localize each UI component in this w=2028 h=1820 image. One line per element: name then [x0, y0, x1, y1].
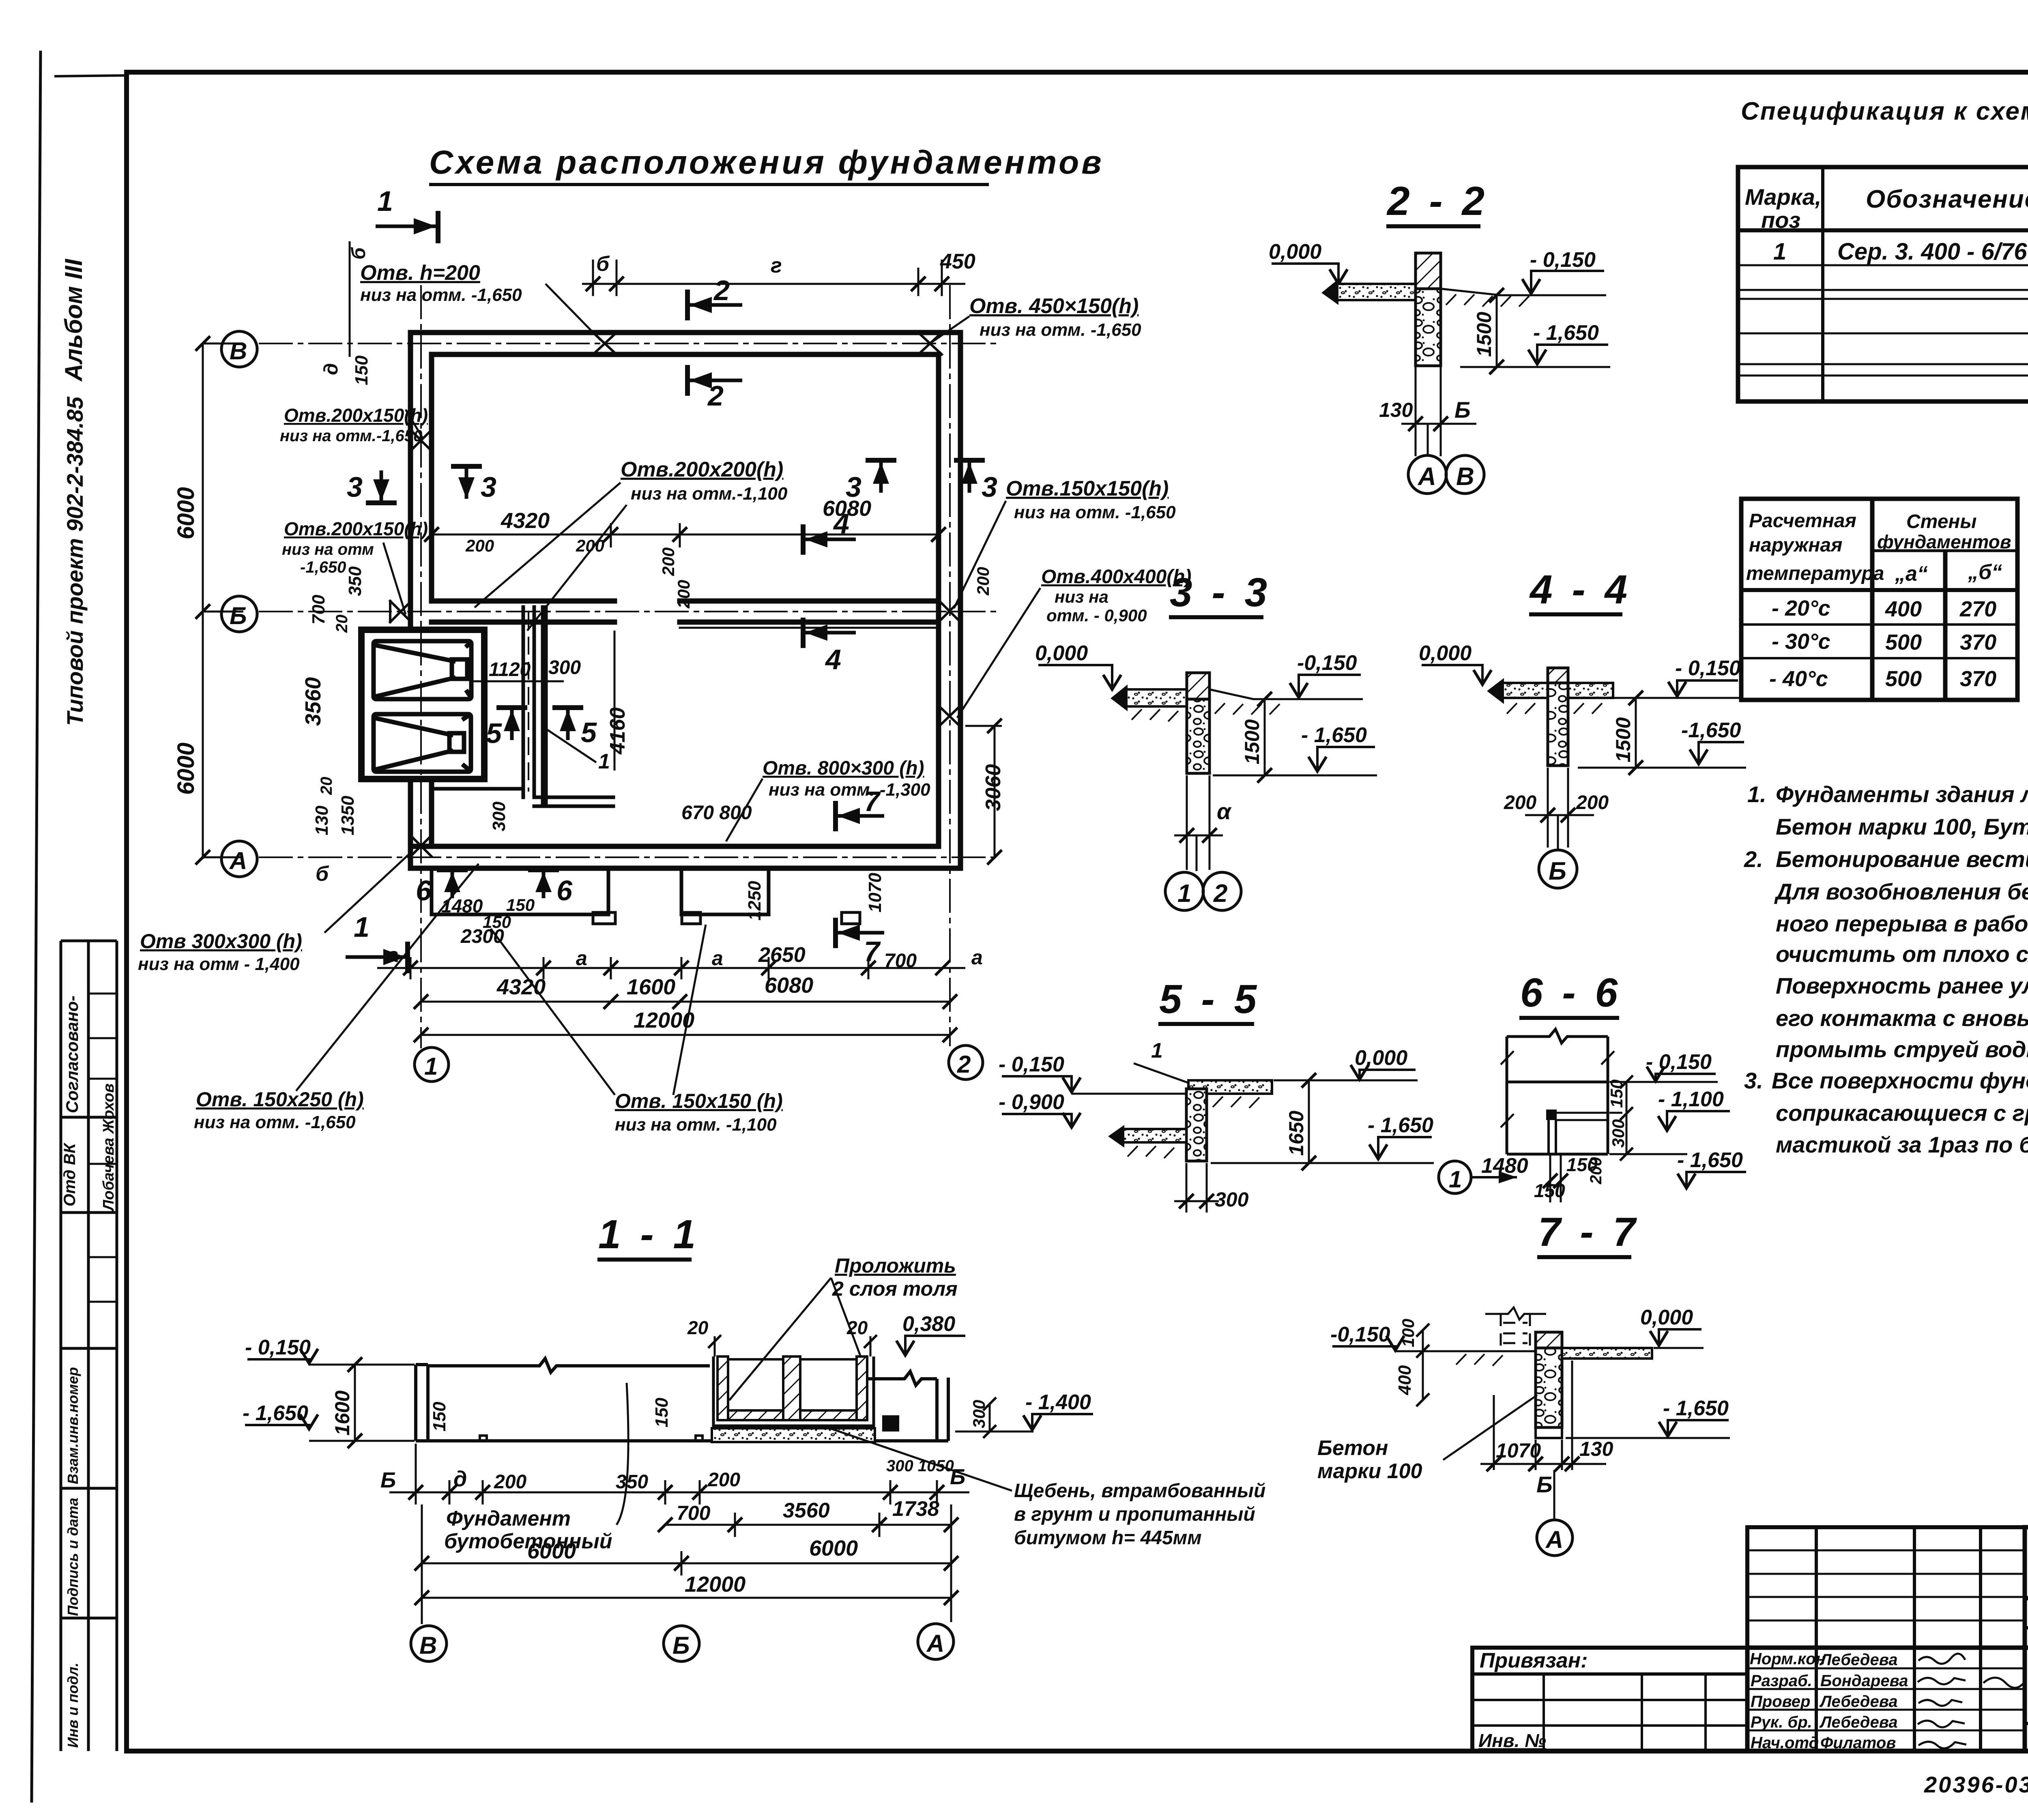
level -0.150	[1253, 651, 1363, 699]
svg-text:1: 1	[1773, 238, 1786, 265]
opening cross left wall upper	[410, 430, 432, 451]
svg-text:Поверхность ранее уложенного: Поверхность ранее уложенного бетона в ме…	[1776, 973, 2028, 998]
ground hatch below upper slab	[1213, 1097, 1259, 1108]
svg-text:130: 130	[1379, 399, 1413, 421]
svg-text:300: 300	[1609, 1119, 1628, 1148]
level 0.000 left	[1269, 240, 1347, 284]
svg-text:Бетон: Бетон	[1317, 1436, 1388, 1460]
level 0.000 right	[1640, 1306, 1704, 1348]
grid circle 2	[949, 1045, 983, 1080]
svg-text:„а“: „а“	[1895, 562, 1928, 586]
svg-text:Отв.200х150(h): Отв.200х150(h)	[284, 518, 428, 539]
svg-text:- 0,900: - 0,900	[999, 1090, 1064, 1114]
svg-text:1: 1	[354, 911, 370, 943]
svg-text:4320: 4320	[501, 509, 550, 533]
level -1.650	[1578, 719, 1746, 768]
G_S77	[1317, 1209, 1730, 1556]
svg-text:300: 300	[489, 801, 509, 831]
svg-text:Отв.400х400(h): Отв.400х400(h)	[1041, 566, 1192, 588]
svg-text:3 - 3: 3 - 3	[1170, 570, 1271, 615]
svg-text:0,000: 0,000	[1419, 642, 1472, 665]
joint notch 1	[480, 1436, 487, 1441]
svg-text:2 - 2: 2 - 2	[1386, 178, 1489, 224]
svg-text:Расчетная: Расчетная	[1749, 510, 1856, 532]
svg-text:А: А	[926, 1630, 944, 1657]
svg-text:Б: Б	[1454, 397, 1471, 423]
rubble foundation body	[1536, 1348, 1562, 1427]
svg-text:Б: Б	[1549, 857, 1566, 885]
svg-text:20: 20	[687, 1317, 709, 1338]
svg-text:1480: 1480	[1481, 1154, 1528, 1178]
svg-text:0,000: 0,000	[1035, 642, 1088, 665]
middle wall right segment	[680, 599, 939, 604]
left wall lower segment	[408, 780, 413, 868]
axis drop line	[1196, 835, 1198, 871]
svg-text:- 0,150: - 0,150	[245, 1336, 311, 1359]
svg-text:низ на отм. -1,650: низ на отм. -1,650	[1014, 502, 1176, 522]
svg-text:150: 150	[1566, 1154, 1598, 1175]
level -1.650	[1460, 321, 1610, 367]
svg-text:2: 2	[713, 275, 730, 306]
svg-text:фундаментов: фундаментов	[1877, 531, 2011, 552]
svg-text:2: 2	[1213, 880, 1227, 908]
svg-text:1: 1	[1151, 1039, 1163, 1062]
svg-text:6000: 6000	[809, 1536, 858, 1560]
svg-text:2.Бетонирование вести непрер: 2.Бетонирование вести непрерывно.	[1744, 846, 2028, 872]
lower floor slab left	[1108, 1125, 1186, 1148]
rubble foundation body	[1548, 683, 1568, 766]
svg-text:Б: Б	[380, 1468, 396, 1492]
svg-text:3.Все поверхности фундаменто: 3.Все поверхности фундаментов, приямка и…	[1744, 1068, 2028, 1093]
axis line 2 vertical	[949, 286, 951, 1045]
floor slab left	[1111, 685, 1187, 711]
leader Otv800x300	[726, 758, 930, 841]
ground hatch below lower slab	[1128, 1146, 1174, 1158]
svg-text:Отв. 450×150(h): Отв. 450×150(h)	[969, 294, 1139, 318]
svg-text:Бондарева: Бондарева	[1820, 1672, 1908, 1690]
svg-text:а: а	[387, 944, 399, 966]
G_S11	[243, 1212, 1265, 1661]
svg-text:12000: 12000	[685, 1572, 745, 1597]
bottom dim row A	[389, 1444, 969, 1505]
foundation wall cut above slab	[1548, 668, 1568, 683]
svg-text:1: 1	[424, 1053, 438, 1080]
bottom wall	[410, 844, 939, 849]
svg-text:а: а	[971, 946, 983, 969]
svg-text:- 1,650: - 1,650	[1368, 1114, 1433, 1137]
svg-text:Б: Б	[1536, 1472, 1553, 1497]
svg-text:1738: 1738	[892, 1497, 939, 1521]
svg-text:Спецификация к схеме распол: Спецификация к схеме расположения фундам…	[1741, 97, 2028, 125]
svg-text:Лебедева: Лебедева	[1819, 1651, 1898, 1669]
G_S66	[1439, 970, 1746, 1202]
svg-text:Щебень, втрамбованный: Щебень, втрамбованный	[1014, 1480, 1265, 1502]
joint notch 2	[696, 1436, 702, 1441]
svg-text:- 1,650: - 1,650	[1533, 321, 1599, 345]
bottom dims 1070 130	[1480, 1361, 1606, 1471]
dim 20 right of trough	[846, 1317, 877, 1356]
svg-text:Норм.кон: Норм.кон	[1750, 1650, 1826, 1668]
svg-text:4: 4	[825, 644, 841, 675]
flotation tank 1	[374, 641, 471, 699]
upper floor slab right	[1188, 1080, 1272, 1094]
svg-text:Стены: Стены	[1906, 511, 1976, 532]
grid circle A	[1537, 1520, 1573, 1556]
svg-text:1650: 1650	[1285, 1111, 1308, 1156]
masonry wall dashed above	[1501, 1314, 1530, 1348]
G_NOTES	[1744, 781, 2028, 1157]
foundation wall cut	[1416, 253, 1441, 289]
trough walls hatched	[712, 1356, 875, 1442]
svg-text:400: 400	[1885, 597, 1922, 621]
svg-text:1600: 1600	[331, 1391, 354, 1436]
svg-text:500: 500	[1885, 630, 1922, 655]
section mark 2 top	[687, 275, 742, 320]
small dims 100 400	[1416, 1324, 1429, 1406]
svg-text:- 1,100: - 1,100	[1658, 1088, 1724, 1111]
foundation wall cut	[1536, 1332, 1562, 1348]
svg-text:6000: 6000	[173, 487, 199, 539]
middle wall left segment	[432, 599, 614, 604]
svg-text:7 - 7: 7 - 7	[1538, 1209, 1639, 1255]
grid circle B bottom	[664, 1626, 699, 1661]
svg-text:Лебедева: Лебедева	[1819, 1693, 1898, 1711]
svg-text:Разраб.: Разраб.	[1751, 1672, 1812, 1690]
svg-text:20396-03: 20396-03	[1924, 1772, 2028, 1797]
svg-text:б: б	[596, 252, 610, 276]
level -0.900	[999, 1090, 1081, 1127]
svg-text:2650: 2650	[758, 943, 806, 967]
left attestation strip	[61, 941, 117, 1751]
svg-text:2: 2	[957, 1051, 971, 1078]
opening cross bottom left	[410, 835, 432, 856]
svg-text:12000: 12000	[634, 1008, 694, 1032]
dim line above middle wall	[424, 523, 946, 547]
svg-text:1: 1	[1449, 1166, 1462, 1193]
svg-text:4320: 4320	[496, 975, 546, 999]
G_S44	[1419, 567, 1746, 888]
svg-text:поз: поз	[1761, 207, 1800, 233]
bottom dim row B	[658, 1513, 958, 1537]
level -0.150 left	[1330, 1323, 1404, 1350]
svg-text:Б: Б	[230, 602, 247, 629]
svg-text:5: 5	[486, 717, 502, 749]
level -0.150	[999, 1053, 1186, 1094]
opening cross right wall mid	[939, 600, 960, 622]
svg-text:150: 150	[1607, 1080, 1626, 1108]
svg-text:битумом h= 445мм: битумом h= 445мм	[1014, 1527, 1202, 1549]
svg-text:Рук. бр.: Рук. бр.	[1751, 1713, 1812, 1731]
svg-text:2300: 2300	[460, 926, 504, 947]
svg-text:0,000: 0,000	[1640, 1306, 1693, 1329]
svg-text:А: А	[1545, 1526, 1563, 1553]
level -0.150	[245, 1336, 415, 1365]
svg-text:200: 200	[465, 536, 494, 555]
level -1.650 right	[1566, 1397, 1730, 1438]
leader Otv200x150 upper	[280, 405, 428, 445]
channel U below bottom wall right	[681, 868, 769, 914]
level 0.380	[896, 1312, 965, 1355]
svg-text:Б: Б	[672, 1632, 690, 1659]
small pit square 1 in bottom channel	[593, 912, 615, 924]
svg-text:6: 6	[416, 875, 432, 906]
svg-text:В: В	[1456, 463, 1474, 491]
svg-text:150: 150	[652, 1397, 672, 1427]
right wall	[958, 333, 963, 868]
leader Otv200x200 center	[475, 458, 788, 631]
project number box	[2025, 1527, 2028, 1648]
axis line A horizontal	[260, 856, 998, 858]
svg-text:350: 350	[616, 1471, 648, 1493]
svg-text:1.Фундаменты здания ленточны: 1.Фундаменты здания ленточные бутобетонн…	[1747, 781, 2028, 807]
opening cross right wall lower	[939, 706, 960, 727]
ground hatch left	[1132, 709, 1178, 721]
grid circle V	[221, 331, 257, 367]
bottom extension and dims 200 200	[1525, 768, 1594, 848]
grid circle B	[1539, 850, 1577, 888]
opening cross top wall right	[918, 333, 942, 354]
section mark 7 upper	[836, 786, 884, 831]
svg-text:700: 700	[309, 595, 329, 625]
svg-text:- 1,650: - 1,650	[1663, 1397, 1729, 1420]
svg-text:- 0,150: - 0,150	[1646, 1050, 1712, 1074]
grid circle A	[1408, 455, 1446, 494]
leader Otv300x300	[138, 854, 410, 974]
label shcheben	[827, 1427, 1265, 1549]
svg-text:3560: 3560	[301, 677, 325, 726]
svg-text:температура: температура	[1746, 563, 1884, 584]
leader Otv450x150	[933, 294, 1141, 341]
svg-text:- 30°с: - 30°с	[1772, 629, 1830, 654]
svg-text:г: г	[771, 254, 782, 277]
svg-text:2 слоя толя: 2 слоя толя	[832, 1277, 958, 1300]
signatures squiggles	[1918, 1654, 2025, 1748]
svg-text:6080: 6080	[765, 973, 813, 998]
svg-text:Бетон марки 100, Бут марки: Бетон марки 100, Бут марки 200.	[1776, 814, 2028, 839]
svg-text:низ на отм. -1,300: низ на отм. -1,300	[769, 780, 930, 800]
top dimension line	[582, 260, 965, 296]
svg-text:20: 20	[333, 615, 351, 633]
ground hatch below slab	[1507, 703, 1602, 714]
svg-text:1: 1	[1177, 880, 1191, 908]
axis line B horizontal	[260, 343, 998, 344]
section mark 1 bottom	[346, 911, 408, 973]
svg-text:200: 200	[659, 547, 678, 576]
svg-text:Схема расположения фундаментов: Схема расположения фундаментов	[429, 144, 1104, 181]
floor slab	[1487, 678, 1613, 704]
svg-text:300: 300	[969, 1400, 988, 1428]
svg-text:200: 200	[674, 580, 693, 609]
pit lower ledge	[432, 787, 523, 791]
svg-text:3: 3	[347, 471, 363, 503]
dim 1500 vertical	[1257, 692, 1272, 783]
trough inner boxes	[728, 1359, 857, 1410]
section mark 4 lower	[803, 618, 856, 675]
svg-text:- 0,150: - 0,150	[1675, 657, 1741, 680]
level -1.650 right	[1609, 1148, 1746, 1188]
svg-text:6000: 6000	[527, 1539, 576, 1563]
grid circle 2	[1203, 872, 1241, 910]
leader 1	[1134, 1039, 1190, 1084]
svg-text:А: А	[1417, 463, 1436, 491]
upper small grid	[1747, 1527, 2025, 1648]
small pit square 3 in bottom channel	[842, 912, 860, 924]
svg-text:Отв 300х300 (h): Отв 300х300 (h)	[140, 930, 302, 953]
svg-text:350: 350	[345, 566, 365, 596]
svg-text:наружная: наружная	[1749, 534, 1842, 556]
svg-text:-0,150: -0,150	[1297, 651, 1357, 675]
dim 20 left of trough	[687, 1317, 721, 1356]
foundation wall cut	[1187, 673, 1209, 699]
level -0.150	[1497, 248, 1606, 295]
svg-text:Для возобновления бетонирова: Для возобновления бетонирования после вы…	[1774, 879, 2028, 904]
level -1.400	[955, 1391, 1093, 1432]
G_S55	[999, 977, 1434, 1213]
svg-text:А: А	[229, 847, 247, 874]
svg-text:Лобачева Жохов: Лобачева Жохов	[100, 1084, 117, 1212]
svg-text:низ на отм. -1,650: низ на отм. -1,650	[194, 1112, 356, 1132]
svg-text:- 1,650: - 1,650	[1301, 723, 1367, 747]
leader Otv150x250	[194, 864, 479, 1132]
opening cross left wall at axis B	[390, 601, 411, 622]
ground line right	[1441, 289, 1545, 307]
svg-text:Отв. 800×300 (h): Отв. 800×300 (h)	[763, 758, 924, 779]
bottom extension and dim a	[1174, 775, 1223, 870]
sheet edge line left	[32, 51, 41, 1803]
leader Otv200x150 lower	[282, 518, 428, 614]
top margin tick line	[54, 75, 127, 76]
svg-text:Отв. 150х150 (h): Отв. 150х150 (h)	[615, 1090, 783, 1112]
leader Otv400x400 right	[957, 566, 1192, 718]
svg-text:200: 200	[1576, 792, 1609, 813]
svg-text:6: 6	[556, 875, 573, 906]
svg-text:Инв и подл.: Инв и подл.	[64, 1663, 81, 1748]
grid circle 1 with arrow	[1439, 1161, 1517, 1193]
svg-text:Проложить: Проложить	[835, 1254, 956, 1277]
level 0.000	[1419, 642, 1491, 685]
svg-text:5 - 5: 5 - 5	[1159, 977, 1261, 1022]
svg-text:1070: 1070	[1496, 1439, 1541, 1462]
dim line a row	[377, 957, 965, 979]
svg-text:0,000: 0,000	[1269, 240, 1321, 264]
svg-text:б: б	[348, 247, 370, 260]
level 0.000	[1035, 642, 1121, 689]
stamp names column	[1750, 1650, 1908, 1752]
svg-text:5: 5	[581, 717, 597, 748]
section mark 3 down-left	[347, 470, 397, 503]
rubble foundation body	[1187, 699, 1209, 773]
svg-text:Взам.инв.номер: Взам.инв.номер	[64, 1367, 81, 1484]
svg-text:1500: 1500	[1241, 719, 1263, 764]
svg-text:промыть струей воды.: промыть струей воды.	[1776, 1037, 2028, 1062]
G_TITLE	[429, 144, 1104, 185]
rubble foundation body	[1416, 289, 1441, 366]
floor slab right	[1562, 1348, 1652, 1359]
svg-text:очистить от плохо схватившихс: очистить от плохо схватившихся участков.	[1776, 941, 2028, 967]
svg-text:130: 130	[1579, 1438, 1613, 1460]
svg-text:3560: 3560	[783, 1499, 830, 1522]
spec table grid	[1738, 167, 2028, 401]
ground line left	[1395, 1351, 1536, 1366]
svg-text:Отв.200х150(h): Отв.200х150(h)	[284, 405, 428, 426]
svg-text:Инв. №: Инв. №	[1478, 1730, 1546, 1751]
svg-text:300: 300	[548, 657, 581, 678]
axis line Bm horizontal	[260, 611, 998, 612]
svg-text:0,380: 0,380	[902, 1312, 955, 1336]
svg-text:низ на отм - 1,400: низ на отм - 1,400	[138, 954, 300, 974]
svg-text:1120: 1120	[489, 659, 531, 680]
leader 1 to channel	[541, 726, 610, 773]
svg-text:1500: 1500	[1612, 717, 1635, 762]
foundation band outline	[416, 1359, 948, 1441]
svg-text:20: 20	[318, 777, 335, 796]
svg-text:1 - 1: 1 - 1	[598, 1212, 700, 1257]
dim line 4320/1600/6080	[414, 994, 957, 1009]
svg-text:-1,650: -1,650	[300, 558, 346, 576]
section mark 4 upper	[803, 508, 856, 555]
bottom dim row C	[415, 1551, 958, 1575]
svg-text:низ на отм. -1,650: низ на отм. -1,650	[360, 285, 522, 305]
level 0.000 right	[1274, 1046, 1418, 1080]
small dims 150 300 rotated	[1620, 1075, 1633, 1161]
svg-text:1: 1	[377, 185, 393, 217]
svg-text:670 800: 670 800	[681, 802, 752, 824]
black anchor square	[882, 1415, 899, 1432]
level -1.650	[1213, 723, 1377, 775]
svg-text:а: а	[712, 947, 723, 970]
ground line right with slope	[1209, 689, 1290, 715]
svg-text:Подпись и дата: Подпись и дата	[64, 1498, 81, 1616]
flotation tank 2	[374, 714, 471, 772]
label Beton marki 100	[1317, 1395, 1537, 1483]
svg-text:Отд ВК: Отд ВК	[61, 1142, 79, 1206]
svg-text:300: 300	[1215, 1188, 1249, 1211]
grid circle 1	[1165, 872, 1203, 910]
svg-text:0,000: 0,000	[1355, 1046, 1407, 1070]
floor slab left	[1321, 279, 1416, 305]
svg-text:3060: 3060	[982, 764, 1005, 811]
svg-text:6 - 6: 6 - 6	[1520, 970, 1622, 1015]
svg-text:1070: 1070	[865, 873, 885, 912]
section mark 5 right	[552, 708, 597, 748]
grid circle V bottom	[411, 1626, 447, 1661]
svg-text:370: 370	[1960, 630, 1996, 655]
svg-text:150: 150	[506, 895, 535, 914]
bottom extension and dim 130 B	[1401, 367, 1476, 456]
svg-text:Отв. 150х250 (h): Отв. 150х250 (h)	[196, 1088, 364, 1111]
main stamp grid	[1747, 1648, 2028, 1751]
svg-text:150: 150	[352, 355, 372, 385]
svg-text:450: 450	[940, 250, 975, 273]
section mark 3 down-right	[451, 466, 496, 503]
G_PLAN	[221, 286, 998, 1082]
svg-text:α: α	[1217, 798, 1232, 824]
svg-text:1: 1	[598, 750, 610, 773]
grid circle A	[221, 841, 257, 877]
section mark 1 top	[376, 185, 438, 243]
svg-text:200: 200	[494, 1471, 526, 1493]
svg-text:- 0,150: - 0,150	[1530, 248, 1596, 272]
label fundament butobetonny	[444, 1383, 628, 1553]
top wall	[410, 330, 960, 335]
svg-text:Нач.отд: Нач.отд	[1751, 1734, 1819, 1752]
svg-text:Марка,: Марка,	[1745, 184, 1821, 210]
section mark 3 up-left	[846, 460, 896, 503]
svg-text:низ на отм.-1,100: низ на отм.-1,100	[631, 484, 788, 504]
svg-text:д: д	[320, 363, 342, 375]
svg-text:Типовой проект 902-2-384.85: Типовой проект 902-2-384.85	[62, 396, 88, 726]
dim 1650 vertical	[1302, 1073, 1316, 1170]
